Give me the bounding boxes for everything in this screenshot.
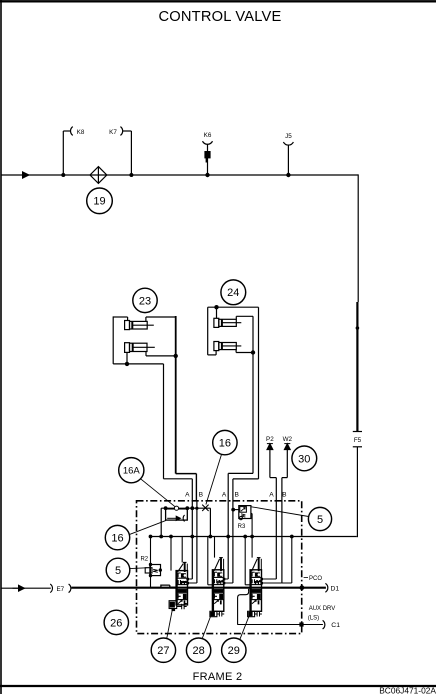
wire group23 rod-end hose bbox=[146, 316, 197, 502]
node work manifold right bbox=[185, 506, 189, 510]
balloon 30 bbox=[292, 446, 317, 471]
node A1 on manifold bbox=[190, 506, 194, 510]
port E7 inlet wire bbox=[1, 584, 71, 593]
node gallery x192.3 bbox=[190, 535, 194, 539]
connector J5 bbox=[283, 133, 293, 175]
leader 27 bbox=[167, 609, 173, 639]
wire group24 cap-end hose bbox=[208, 307, 259, 501]
junction node group24 rod hose bbox=[251, 350, 255, 354]
port W2 bbox=[282, 436, 293, 502]
wire right-side riser bbox=[356, 174, 360, 431]
svg-text:30: 30 bbox=[298, 453, 310, 465]
node gallery x171 bbox=[169, 535, 173, 539]
junction node at K6 drop bbox=[205, 173, 209, 177]
balloon 16 (left) bbox=[105, 525, 129, 549]
balloon 29 bbox=[222, 638, 246, 662]
node gallery x161.2 bbox=[159, 535, 163, 539]
wire group24 rod-end hose bbox=[228, 316, 253, 501]
svg-text:A: A bbox=[185, 491, 190, 498]
balloon 16A bbox=[119, 458, 144, 483]
svg-text:PCO: PCO bbox=[309, 576, 322, 582]
svg-text:J5: J5 bbox=[285, 133, 292, 140]
balloon 5 (right) bbox=[308, 507, 331, 530]
node LS at block edge bbox=[299, 622, 303, 626]
wire carryover drop bbox=[291, 537, 293, 584]
svg-text:B: B bbox=[282, 491, 287, 498]
svg-text:R2: R2 bbox=[140, 557, 148, 563]
spool section 2 (item 28) bbox=[208, 537, 233, 617]
balloon 24 bbox=[221, 280, 246, 305]
wire B2 drop bbox=[232, 502, 234, 584]
balloon 19 bbox=[87, 188, 113, 214]
wire A3 drop bbox=[275, 502, 277, 580]
wire group23 cap-end hose bbox=[113, 316, 192, 501]
svg-text:P2: P2 bbox=[266, 436, 274, 443]
wire main top supply line bbox=[1, 174, 358, 176]
wire main pressure gallery bbox=[72, 587, 326, 589]
svg-text:CONTROL VALVE: CONTROL VALVE bbox=[158, 9, 281, 25]
node gallery x252.1 bbox=[250, 535, 254, 539]
balloon 28 bbox=[186, 638, 210, 662]
node gallery x210.4 bbox=[209, 535, 213, 539]
port C1 outlet bbox=[302, 620, 341, 629]
svg-text:R3: R3 bbox=[238, 524, 246, 530]
label PCO bbox=[304, 576, 308, 578]
control valve block boundary bbox=[137, 501, 302, 634]
svg-text:16: 16 bbox=[111, 532, 123, 544]
junction node at J5 drop bbox=[286, 173, 290, 177]
orifice/filter symbol on supply line bbox=[90, 167, 107, 184]
svg-text:A: A bbox=[269, 491, 274, 498]
connector K7 bbox=[109, 127, 131, 175]
leader 16A bbox=[141, 479, 176, 507]
relief valve R3 bbox=[231, 506, 252, 537]
svg-text:26: 26 bbox=[110, 617, 122, 629]
svg-text:23: 23 bbox=[139, 295, 151, 307]
balloon 5 (left) bbox=[106, 558, 130, 582]
wire A2 drop bbox=[227, 502, 229, 580]
svg-text:BC06J471-02A: BC06J471-02A bbox=[379, 686, 436, 694]
svg-text:27: 27 bbox=[157, 645, 169, 657]
test point F5 bbox=[353, 432, 362, 538]
svg-text:5: 5 bbox=[317, 514, 323, 526]
leader terminal circle 16A bbox=[174, 506, 178, 510]
balloon 27 bbox=[151, 638, 175, 662]
leader 5 right bbox=[252, 507, 309, 517]
svg-text:24: 24 bbox=[227, 287, 239, 299]
wire load-sense to C1 bbox=[238, 589, 302, 625]
svg-text:W2: W2 bbox=[283, 436, 293, 443]
connector K8 bbox=[63, 127, 85, 175]
junction node group24 cap hose bbox=[214, 305, 218, 309]
node gallery x245.2 bbox=[243, 535, 247, 539]
svg-text:C1: C1 bbox=[331, 622, 340, 629]
flow arrow on top supply line bbox=[14, 172, 30, 178]
svg-text:(LS): (LS) bbox=[308, 615, 319, 621]
spool section 1 (item 27) bbox=[161, 537, 197, 612]
spool section 3 (item 29) bbox=[245, 537, 292, 617]
port P2 bbox=[266, 436, 276, 502]
svg-text:B: B bbox=[234, 491, 239, 498]
wire gallery manifold bbox=[149, 536, 357, 538]
svg-text:16: 16 bbox=[219, 437, 231, 449]
svg-text:K7: K7 bbox=[109, 129, 117, 136]
relief valve R2 bbox=[140, 537, 162, 588]
node pressure at block exit bbox=[300, 585, 305, 590]
svg-text:19: 19 bbox=[93, 196, 105, 208]
wire B1 drop bbox=[196, 502, 198, 584]
svg-text:K6: K6 bbox=[204, 132, 212, 139]
svg-text:B: B bbox=[199, 491, 204, 498]
svg-text:A: A bbox=[222, 491, 227, 498]
node gallery x291.8 bbox=[290, 535, 294, 539]
balloon 26 bbox=[104, 610, 128, 634]
svg-text:28: 28 bbox=[192, 645, 204, 657]
wire A1 drop bbox=[191, 502, 193, 580]
closed port X symbol bbox=[202, 505, 208, 511]
svg-text:AUX DRV: AUX DRV bbox=[309, 606, 336, 612]
cylinder C24a (upper) bbox=[214, 318, 241, 327]
leader 29 bbox=[240, 612, 251, 640]
svg-text:5: 5 bbox=[115, 565, 121, 577]
cylinder C24b (lower) bbox=[214, 342, 241, 351]
wire top work-port manifold bbox=[161, 508, 210, 536]
balloon 23 bbox=[133, 288, 157, 312]
svg-text:D1: D1 bbox=[331, 585, 340, 592]
svg-text:16A: 16A bbox=[123, 466, 141, 477]
svg-text:E7: E7 bbox=[56, 586, 64, 593]
port D1 outlet bbox=[325, 583, 339, 592]
leader 16 upper bbox=[206, 454, 222, 504]
leader 16 left bbox=[130, 520, 166, 534]
junction node at K7 drop bbox=[129, 173, 133, 177]
node gallery x228.2 bbox=[226, 535, 230, 539]
leader 28 bbox=[202, 617, 210, 639]
balloon 16 (upper) bbox=[213, 430, 237, 454]
svg-text:F5: F5 bbox=[354, 437, 362, 444]
wire B3 drop bbox=[281, 502, 283, 584]
junction node group23 cap hose bbox=[125, 362, 129, 366]
svg-text:29: 29 bbox=[228, 645, 240, 657]
node gallery x150.5 bbox=[149, 535, 153, 539]
svg-text:K8: K8 bbox=[77, 129, 85, 136]
node work manifold left bbox=[164, 506, 168, 510]
node B1 on manifold bbox=[195, 507, 198, 510]
junction node at K8 drop bbox=[61, 173, 65, 177]
svg-text:FRAME 2: FRAME 2 bbox=[193, 671, 243, 683]
cylinder C23b (lower) bbox=[125, 343, 155, 353]
check valve box (item 16A) bbox=[166, 509, 188, 522]
cylinder C23a (upper) bbox=[125, 321, 154, 330]
leader 5 left bbox=[130, 567, 147, 570]
connector K6 bbox=[203, 132, 213, 175]
junction node group23 rod hose bbox=[174, 354, 178, 358]
